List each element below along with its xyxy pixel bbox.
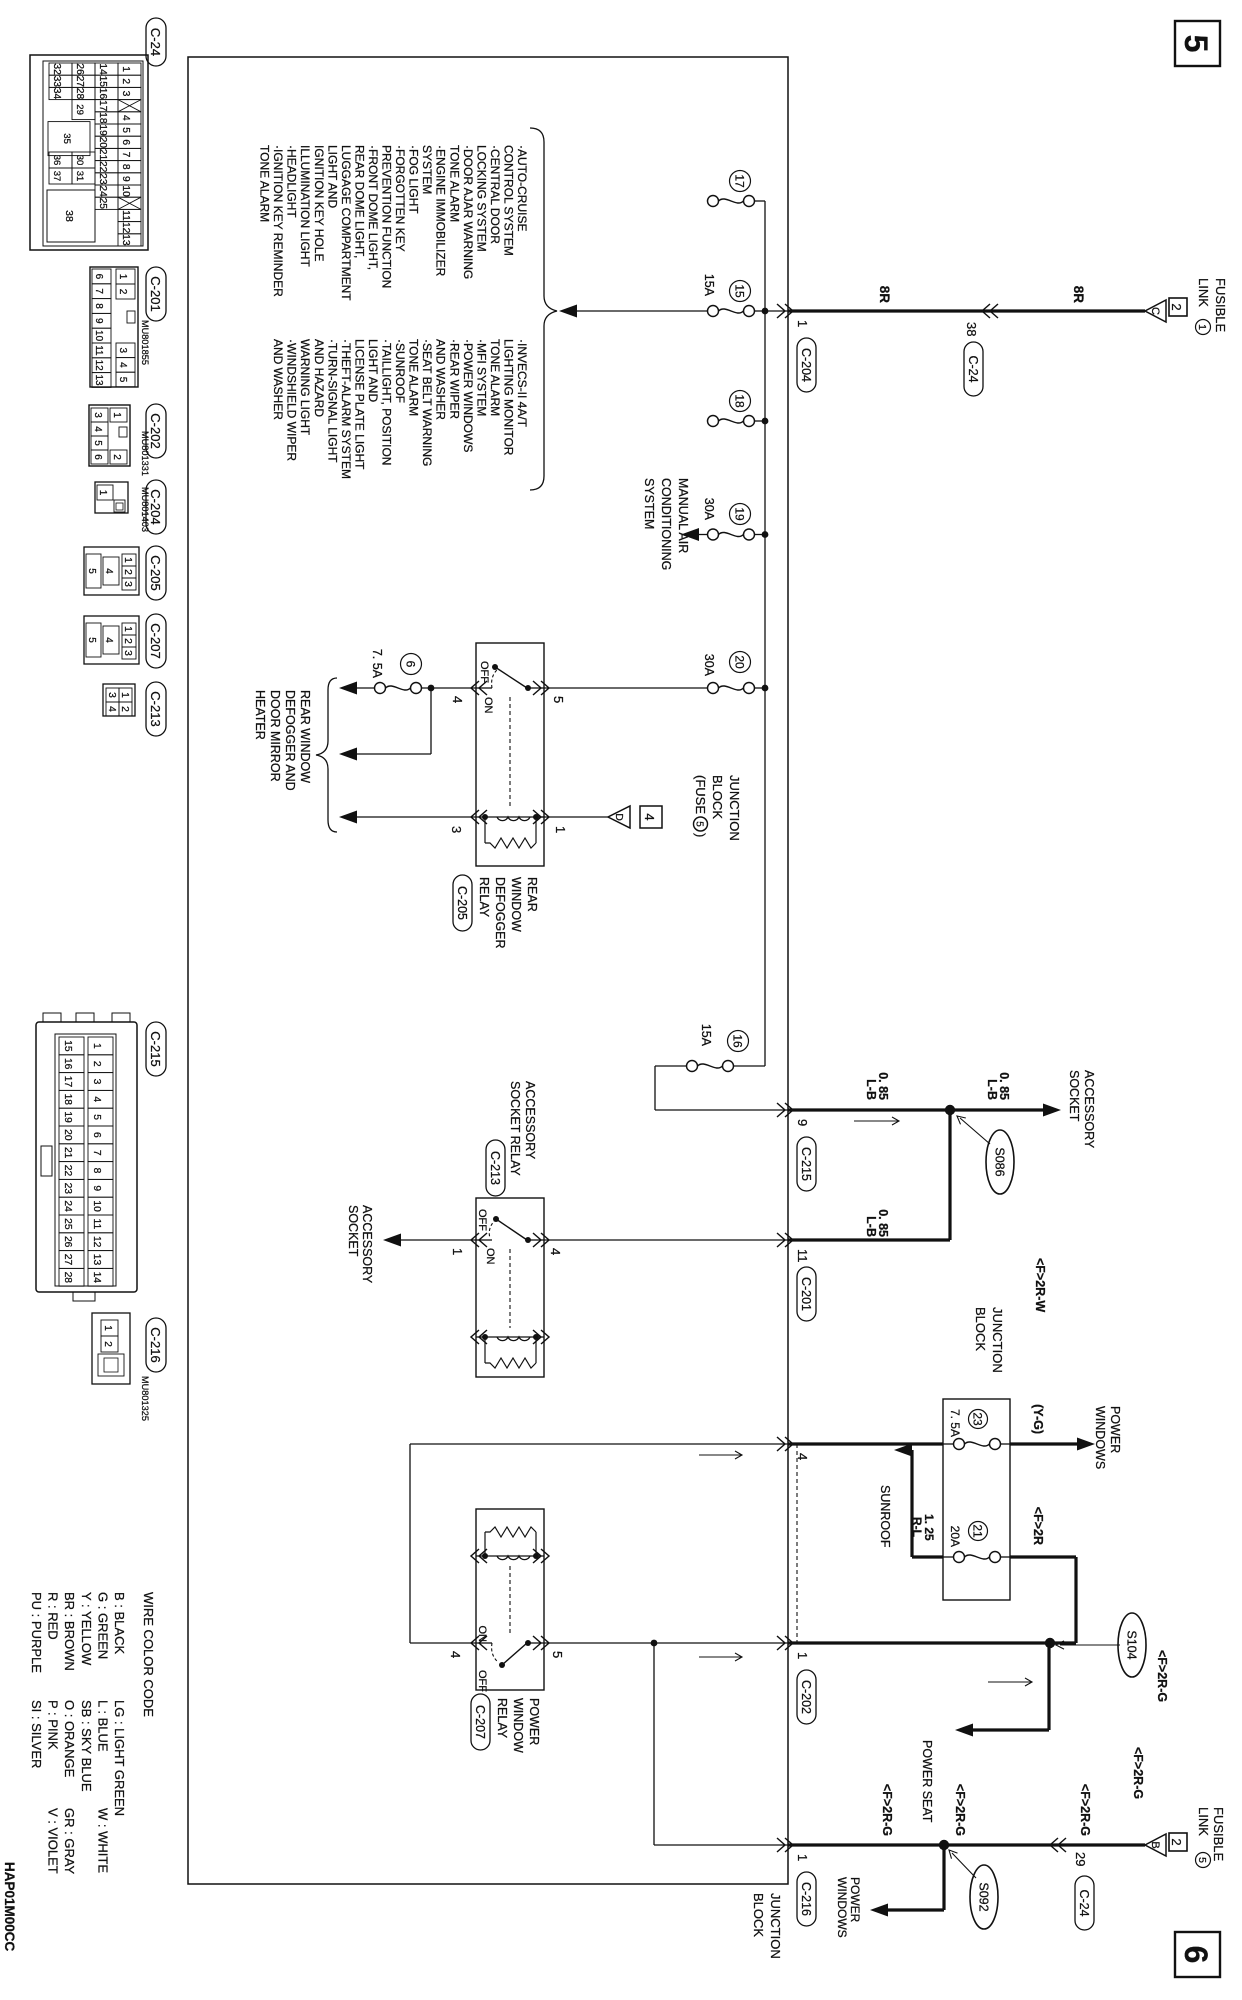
dashed link entry4 to entry1 C-202 — [796, 1444, 798, 1643]
wire label F2R-G fl5 mid — [953, 1784, 967, 1836]
svg-text:4: 4 — [103, 568, 114, 574]
svg-text:20A: 20A — [948, 1526, 962, 1547]
fusible link 1 page box 2 — [1169, 298, 1187, 316]
svg-text:<F>2R-W: <F>2R-W — [1033, 1258, 1047, 1312]
svg-text:25: 25 — [62, 1218, 73, 1230]
svg-text:G : GREEN: G : GREEN — [95, 1592, 110, 1659]
svg-text:HEATER: HEATER — [253, 690, 267, 740]
power seat branch — [971, 1643, 1049, 1730]
relay C-213 coil resistor — [485, 1337, 536, 1368]
wire label F2R — [1031, 1507, 1045, 1545]
svg-text:WINDOWS: WINDOWS — [1093, 1406, 1107, 1469]
svg-text:·WINDSHIELD WIPER: ·WINDSHIELD WIPER — [285, 339, 299, 461]
svg-text:6: 6 — [91, 1132, 102, 1138]
svg-text:2: 2 — [122, 569, 133, 575]
connector C-215 label — [146, 1022, 166, 1076]
systems list column 1 — [258, 145, 529, 301]
svg-text:3: 3 — [106, 692, 117, 698]
wire relay pin4 to fuse6 — [422, 685, 477, 692]
svg-text:7. 5A: 7. 5A — [948, 1409, 962, 1437]
svg-text:<F>2R-G: <F>2R-G — [953, 1784, 967, 1836]
svg-text:2: 2 — [1169, 1838, 1184, 1845]
fuse 19 30A — [708, 529, 766, 540]
svg-text:1: 1 — [553, 826, 568, 833]
relay C-205 pin3 chevron — [449, 810, 487, 833]
svg-text:FUSIBLE: FUSIBLE — [1213, 278, 1228, 333]
svg-text:14: 14 — [97, 63, 108, 75]
svg-text:8: 8 — [93, 303, 104, 309]
svg-text:1: 1 — [1196, 324, 1208, 330]
svg-text:18: 18 — [97, 112, 108, 124]
svg-text:5: 5 — [550, 1651, 565, 1658]
svg-text:12: 12 — [120, 222, 131, 234]
svg-text:ON: ON — [484, 1248, 496, 1265]
svg-text:6: 6 — [92, 454, 103, 460]
svg-text:ACCESSORY: ACCESSORY — [523, 1081, 537, 1160]
relay C-213 pin4 chevron — [533, 1233, 563, 1255]
connector C-215 pinout — [36, 1013, 137, 1301]
page number box 6 — [1175, 1932, 1220, 1977]
svg-text:17: 17 — [62, 1076, 73, 1088]
wire entry11 to relay C-213 pin4 — [544, 1239, 788, 1241]
connector C-201 pinout — [90, 267, 138, 387]
svg-text:15A: 15A — [699, 1024, 713, 1047]
svg-text:4: 4 — [450, 696, 465, 703]
svg-text:1: 1 — [122, 626, 133, 632]
fuse 17 (spare) — [708, 196, 766, 207]
svg-text:R : RED: R : RED — [46, 1592, 61, 1640]
svg-text:1: 1 — [120, 66, 131, 72]
relay C-205 label — [453, 875, 539, 949]
svg-text:7: 7 — [120, 152, 131, 158]
relay C-213 switch — [476, 1209, 544, 1265]
svg-text:15: 15 — [733, 284, 747, 298]
junction dot S086 — [945, 1105, 955, 1115]
svg-text:ILLUMINATION LIGHT: ILLUMINATION LIGHT — [298, 145, 312, 267]
relay C-207 coil resistor — [485, 1527, 536, 1556]
svg-text:ACCESSORY: ACCESSORY — [360, 1205, 374, 1284]
svg-text:FUSIBLE: FUSIBLE — [1211, 1807, 1226, 1862]
svg-text:4: 4 — [103, 637, 114, 643]
svg-text:5: 5 — [120, 127, 131, 133]
svg-text:2: 2 — [102, 1341, 113, 1347]
svg-text:DOOR MIRROR: DOOR MIRROR — [268, 690, 282, 782]
svg-text:23: 23 — [971, 1412, 985, 1426]
svg-text:9: 9 — [93, 318, 104, 324]
fuse 19 label — [702, 498, 751, 525]
svg-text:2: 2 — [1169, 303, 1184, 310]
connector C-24 pinout — [30, 55, 148, 250]
svg-text:2: 2 — [122, 638, 133, 644]
relay C-205 actuation dashed — [509, 697, 511, 808]
arrow power windows bottom — [870, 1904, 888, 1917]
splice S104 — [1056, 1613, 1146, 1677]
svg-text:23: 23 — [62, 1183, 73, 1195]
wire label F2R-G S104 — [1155, 1650, 1169, 1702]
svg-text:C-205: C-205 — [148, 555, 163, 590]
svg-text:LICENSE PLATE LIGHT: LICENSE PLATE LIGHT — [352, 339, 366, 470]
svg-text:·SUNROOF: ·SUNROOF — [393, 339, 407, 403]
svg-text:PU : PURPLE: PU : PURPLE — [29, 1592, 44, 1673]
svg-text:ON: ON — [482, 697, 494, 714]
connector C-201 label — [140, 267, 166, 365]
svg-text:B: B — [1149, 1841, 1161, 1848]
power seat label — [920, 1740, 934, 1823]
svg-text:7: 7 — [93, 288, 104, 294]
relay C-207 coil — [476, 1553, 544, 1560]
svg-text:C-205: C-205 — [455, 886, 469, 920]
svg-text:B : BLACK: B : BLACK — [112, 1592, 127, 1654]
relay C-213 box — [476, 1198, 544, 1377]
svg-text:MU801403: MU801403 — [140, 487, 150, 532]
connector C-202 pinout — [89, 405, 130, 466]
svg-text:17: 17 — [97, 100, 108, 112]
wire fuse6 to arrow — [356, 687, 375, 689]
svg-text:BLOCK: BLOCK — [751, 1893, 766, 1937]
svg-text:3: 3 — [92, 412, 103, 418]
direction arrow power seat — [988, 1678, 1032, 1686]
relay C-205 pin5 chevron — [533, 681, 566, 703]
svg-text:·FRONT DOME LIGHT,: ·FRONT DOME LIGHT, — [366, 145, 380, 270]
svg-text:LG : LIGHT GREEN: LG : LIGHT GREEN — [112, 1700, 127, 1816]
svg-text:8: 8 — [91, 1168, 102, 1174]
svg-text:2: 2 — [119, 706, 130, 712]
svg-text:38: 38 — [63, 210, 75, 222]
connector C-204 pinout — [95, 482, 128, 513]
svg-text:SUNROOF: SUNROOF — [878, 1485, 892, 1548]
fuse 18 (spare) — [708, 416, 766, 427]
svg-text:1: 1 — [91, 1043, 102, 1049]
svg-text:SYSTEM: SYSTEM — [420, 145, 434, 194]
arrow power windows right — [1077, 1438, 1095, 1451]
svg-text:21: 21 — [97, 149, 108, 161]
connector entry 1 C-202 — [777, 1636, 816, 1724]
small junction block box — [943, 1399, 1010, 1600]
svg-text:C-204: C-204 — [799, 348, 813, 382]
relay C-205 coil — [476, 814, 544, 821]
svg-text:1: 1 — [102, 1325, 113, 1331]
svg-text:·AUTO-CRUISE: ·AUTO-CRUISE — [515, 145, 529, 231]
wire label F2R-G fl5 lower — [880, 1784, 894, 1836]
svg-text:28: 28 — [74, 88, 85, 100]
svg-text:7. 5A: 7. 5A — [370, 649, 384, 679]
svg-text:4: 4 — [548, 1248, 563, 1255]
connector C-205 label — [146, 546, 166, 600]
svg-text:1: 1 — [117, 274, 128, 280]
svg-text:16: 16 — [731, 1034, 745, 1048]
connector C-204 label — [140, 480, 166, 534]
systems list column 2 — [271, 339, 529, 479]
svg-text:D: D — [613, 813, 625, 821]
wire fusible link 5 to entry C-216 — [788, 1843, 1145, 1846]
svg-text:3: 3 — [122, 650, 133, 656]
branch wire to arrow 2 — [356, 688, 431, 754]
arrow rear window defogger 2 — [339, 748, 357, 761]
arrow sunroof — [894, 1444, 912, 1457]
page number box 5 — [1175, 21, 1220, 66]
relay C-205 box — [476, 643, 544, 866]
direction arrow wire4 inside — [699, 1451, 742, 1459]
svg-text:9: 9 — [120, 176, 131, 182]
relay C-207 box — [476, 1509, 544, 1690]
svg-text:C-24: C-24 — [1077, 1889, 1091, 1916]
svg-text:2: 2 — [117, 289, 128, 295]
svg-text:35: 35 — [61, 133, 72, 144]
svg-text:30A: 30A — [702, 498, 716, 521]
svg-text:12: 12 — [91, 1236, 102, 1248]
svg-text:·FOG LIGHT: ·FOG LIGHT — [407, 145, 421, 214]
direction arrow wire9 — [854, 1117, 899, 1125]
connector C-207 pinout — [84, 616, 139, 664]
svg-text:38: 38 — [964, 322, 979, 336]
svg-text:30: 30 — [74, 155, 85, 166]
svg-text:10: 10 — [120, 185, 131, 197]
svg-text:·INVECS-II 4A/T: ·INVECS-II 4A/T — [515, 339, 529, 428]
relay C-205 pin4 chevron — [450, 681, 487, 703]
connector C-207 label — [146, 614, 166, 668]
svg-text:9: 9 — [795, 1119, 810, 1126]
svg-text:5: 5 — [694, 821, 705, 827]
svg-text:Y : YELLOW: Y : YELLOW — [79, 1592, 94, 1666]
svg-text:POWER SEAT: POWER SEAT — [920, 1740, 934, 1823]
accessory socket label bottom — [346, 1205, 374, 1284]
svg-text:13: 13 — [93, 374, 104, 386]
svg-text:MU801855: MU801855 — [140, 320, 150, 365]
svg-text:C-213: C-213 — [488, 1151, 502, 1185]
svg-text:C-215: C-215 — [148, 1031, 163, 1066]
svg-text:3: 3 — [117, 348, 128, 354]
svg-text:REAR WINDOW: REAR WINDOW — [298, 690, 312, 783]
svg-text:24: 24 — [97, 185, 108, 197]
arrow rear window defogger 3 — [339, 811, 357, 824]
svg-text:30A: 30A — [702, 654, 716, 677]
power windows label bottom — [835, 1877, 862, 1938]
svg-text:4: 4 — [642, 813, 657, 820]
svg-text:L-B: L-B — [864, 1216, 878, 1237]
rear window defogger label — [253, 690, 312, 791]
svg-text:L-B: L-B — [864, 1079, 878, 1100]
svg-text:SOCKET RELAY: SOCKET RELAY — [508, 1081, 522, 1176]
svg-text:·FORGOTTEN KEY: ·FORGOTTEN KEY — [393, 145, 407, 252]
svg-text:REAR DOME LIGHT,: REAR DOME LIGHT, — [352, 145, 366, 258]
svg-text:21: 21 — [971, 1524, 985, 1538]
fuse 15 label — [702, 274, 751, 302]
svg-text:MU801331: MU801331 — [140, 431, 150, 476]
connector entry 1 C-216 — [777, 1838, 816, 1926]
svg-text:25: 25 — [97, 198, 108, 210]
svg-text:5: 5 — [1196, 1857, 1208, 1863]
svg-text:R-L: R-L — [910, 1517, 924, 1537]
svg-text:BR : BROWN: BR : BROWN — [62, 1592, 77, 1671]
wire fuse20 to relay C-205 pin5 — [544, 687, 708, 689]
svg-text:5: 5 — [551, 696, 566, 703]
svg-text:TONE ALARM: TONE ALARM — [258, 145, 272, 222]
svg-text:WINDOW: WINDOW — [509, 877, 523, 932]
fuse 16 15A — [687, 1061, 766, 1072]
svg-text:4: 4 — [92, 426, 103, 432]
svg-text:SI : SILVER: SI : SILVER — [29, 1700, 44, 1768]
svg-text:TONE ALARM: TONE ALARM — [407, 339, 421, 416]
connector C-205 pinout — [84, 547, 139, 595]
distribution bus inside junction block — [765, 201, 788, 1066]
svg-text:6: 6 — [120, 139, 131, 145]
svg-text:15A: 15A — [702, 274, 716, 297]
wire fuse19 to manual AC — [697, 534, 708, 536]
wire fuse23 to power windows — [1010, 1442, 1079, 1445]
svg-text:C-24: C-24 — [148, 28, 163, 56]
relay C-205 switch — [476, 661, 544, 714]
svg-text:8R: 8R — [1071, 286, 1086, 304]
wire label 8R upper — [1071, 286, 1086, 304]
svg-text:3: 3 — [449, 826, 464, 833]
wire label F2R-G fl5 upper — [1078, 1784, 1092, 1836]
svg-text:V : VIOLET: V : VIOLET — [46, 1808, 61, 1874]
svg-text:12: 12 — [93, 360, 104, 372]
svg-text:1: 1 — [795, 1854, 810, 1861]
svg-text:31: 31 — [74, 171, 85, 182]
svg-text:C-201: C-201 — [148, 276, 163, 311]
junction dot fuse19 column — [762, 531, 769, 538]
wire fuse21 to sunroof — [912, 1450, 943, 1557]
junction block label right — [751, 1893, 783, 1959]
fusible link 5 page box 2 — [1169, 1833, 1187, 1851]
svg-text:C-24: C-24 — [966, 355, 980, 382]
svg-text:34: 34 — [51, 88, 62, 100]
svg-text:C-216: C-216 — [148, 1327, 163, 1362]
fuse 23 7.5A — [943, 1439, 1010, 1450]
drawing code HAP01M00CC — [2, 1862, 17, 1952]
svg-text:AND WASHER: AND WASHER — [434, 339, 448, 420]
svg-text:16: 16 — [97, 88, 108, 100]
svg-text:10: 10 — [93, 330, 104, 342]
svg-text:POWER: POWER — [527, 1698, 541, 1745]
svg-text:4: 4 — [120, 115, 131, 121]
svg-text:15: 15 — [62, 1040, 73, 1052]
junction dot S092 — [939, 1840, 949, 1850]
svg-text:LIGHTING MONITOR: LIGHTING MONITOR — [501, 339, 515, 456]
svg-text:10: 10 — [91, 1200, 102, 1212]
svg-text:26: 26 — [62, 1236, 73, 1248]
svg-text:2: 2 — [120, 78, 131, 84]
svg-text:5: 5 — [117, 377, 128, 383]
svg-text:SOCKET: SOCKET — [346, 1205, 360, 1257]
svg-text:·MFI SYSTEM: ·MFI SYSTEM — [474, 339, 488, 416]
svg-text:8R: 8R — [877, 286, 892, 304]
svg-text:ACCESSORY: ACCESSORY — [1082, 1070, 1096, 1149]
svg-text:AND HAZARD: AND HAZARD — [312, 339, 326, 417]
relay C-207 coil chevron bottom — [471, 1549, 487, 1563]
svg-text:C-213: C-213 — [148, 691, 163, 726]
svg-text:13: 13 — [120, 234, 131, 246]
connector C-24 label — [146, 18, 166, 66]
svg-text:4: 4 — [117, 362, 128, 368]
splice S092 — [949, 1850, 998, 1929]
wire label 8R lower — [877, 286, 892, 304]
relay C-213 coil — [476, 1334, 544, 1341]
svg-text:5: 5 — [1178, 35, 1214, 53]
svg-text:<F>2R-G: <F>2R-G — [880, 1784, 894, 1836]
fuse 20 label — [702, 652, 751, 677]
fusible link 1 label — [1196, 278, 1229, 335]
svg-text:RELAY: RELAY — [477, 877, 491, 918]
svg-text:C-201: C-201 — [799, 1277, 813, 1311]
arrow to systems list — [559, 305, 577, 318]
svg-text:15: 15 — [97, 76, 108, 88]
svg-text:WINDOW: WINDOW — [511, 1698, 525, 1753]
accessory socket label top — [1067, 1070, 1096, 1149]
svg-text:17: 17 — [733, 174, 747, 188]
svg-text:RELAY: RELAY — [495, 1698, 509, 1739]
svg-text:TONE ALARM: TONE ALARM — [488, 339, 502, 416]
svg-text:S086: S086 — [993, 1147, 1007, 1176]
arrow accessory socket top — [1043, 1104, 1061, 1117]
relay C-205 coil wire pin1 — [536, 817, 608, 833]
wire color code legend — [29, 1592, 156, 1875]
svg-text:2: 2 — [111, 454, 122, 460]
wire relay pin3 to arrow 3 — [356, 816, 476, 818]
direction arrow C-202 inside — [699, 1653, 742, 1661]
svg-text:1: 1 — [795, 320, 810, 327]
svg-text:C-216: C-216 — [799, 1882, 813, 1916]
wire label 1.25 R-L — [910, 1514, 936, 1541]
wire S104 to entry C-202 — [788, 1641, 1050, 1644]
svg-text:AND WASHER: AND WASHER — [271, 339, 285, 420]
svg-text:WINDOWS: WINDOWS — [835, 1877, 849, 1938]
relay C-205 pin1 chevron — [533, 810, 549, 824]
svg-text:<F>2R-G: <F>2R-G — [1155, 1650, 1169, 1702]
svg-text:BLOCK: BLOCK — [973, 1307, 988, 1351]
arrow power seat — [955, 1724, 973, 1737]
svg-text:14: 14 — [91, 1272, 102, 1284]
svg-text:L-B: L-B — [985, 1079, 999, 1100]
svg-text:5: 5 — [91, 1114, 102, 1120]
svg-text:5: 5 — [92, 440, 103, 446]
svg-text:(Y-G): (Y-G) — [1031, 1404, 1045, 1434]
power windows branch bottom — [886, 1845, 944, 1910]
inline connector 29 C-24 — [1050, 1838, 1094, 1930]
svg-text:1: 1 — [111, 412, 122, 418]
svg-text:37: 37 — [51, 171, 62, 182]
arrow rear window defogger 1 — [339, 682, 357, 695]
svg-text:S104: S104 — [1125, 1630, 1139, 1659]
svg-text:27: 27 — [74, 76, 85, 88]
svg-text:JUNCTION: JUNCTION — [990, 1307, 1005, 1373]
svg-text:S092: S092 — [977, 1882, 991, 1911]
svg-text:·IGNITION KEY REMINDER: ·IGNITION KEY REMINDER — [271, 145, 285, 297]
fuse 17 label — [730, 171, 751, 192]
wire label F2R-W — [1033, 1258, 1047, 1312]
svg-text:WARNING LIGHT: WARNING LIGHT — [298, 339, 312, 436]
wire label 0.85 L-B wire11 — [864, 1209, 890, 1237]
svg-text:BLOCK: BLOCK — [710, 775, 725, 819]
svg-text:13: 13 — [91, 1254, 102, 1266]
small junction block label — [973, 1307, 1005, 1373]
svg-text:11: 11 — [91, 1219, 102, 1230]
fuse 21 20A — [943, 1552, 1010, 1563]
svg-text:LINK: LINK — [1196, 278, 1211, 307]
svg-text:GR : GRAY: GR : GRAY — [62, 1808, 77, 1875]
junction dot S104 — [1045, 1638, 1055, 1648]
svg-text:SB : SKY BLUE: SB : SKY BLUE — [79, 1700, 94, 1792]
relay C-207 pin4 chevron — [448, 1636, 487, 1658]
svg-text:4: 4 — [91, 1096, 102, 1102]
svg-text:·THEFT-ALARM SYSTEM: ·THEFT-ALARM SYSTEM — [339, 339, 353, 479]
bridge wire S086 to entry 11 — [788, 1110, 950, 1240]
svg-text:OFF: OFF — [476, 1209, 488, 1231]
svg-text:OFF: OFF — [476, 1670, 488, 1692]
svg-text:33: 33 — [51, 76, 62, 88]
svg-text:PREVENTION FUNCTION: PREVENTION FUNCTION — [380, 145, 394, 288]
